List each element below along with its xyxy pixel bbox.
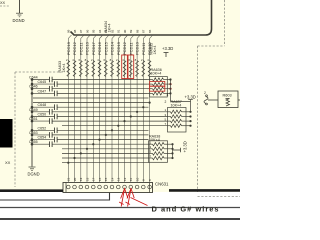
svg-text:D and G# wires: D and G# wires	[152, 205, 220, 214]
svg-text:C644: C644	[29, 76, 38, 80]
svg-text:21: 21	[67, 177, 71, 181]
power +3.3D (RA638, rotated)	[173, 148, 181, 152]
svg-text:PCD11: PCD11	[128, 42, 133, 55]
IC U601 bottom edge with rounded corner	[71, 0, 212, 35]
svg-text:C652: C652	[38, 126, 47, 130]
connector pin numbers	[67, 177, 152, 181]
wire rail 2	[57, 83, 147, 85]
resistor array pin numbers	[66, 58, 149, 62]
svg-text:C645: C645	[38, 80, 47, 84]
svg-text:DGND: DGND	[28, 172, 40, 177]
wire pin PCD15 from IC	[106, 35, 109, 182]
svg-text:PCD12: PCD12	[122, 41, 127, 55]
wire rail 14	[57, 139, 148, 141]
dashed border (right region)	[198, 0, 241, 197]
wire rail 7	[57, 106, 148, 108]
resistor array RA636 10Kx4	[147, 68, 172, 102]
svg-text:PCD13: PCD13	[116, 41, 121, 55]
capacitor C647	[32, 91, 57, 97]
wire pin PCD13 from IC	[118, 35, 121, 182]
wire to R603	[208, 99, 218, 101]
svg-text:20: 20	[73, 177, 77, 181]
capacitor C654	[32, 137, 57, 143]
resistor 1K (array) on wire PCD17	[92, 61, 95, 77]
svg-text:13: 13	[117, 177, 121, 181]
resistor 1K (array) on wire PCC12	[73, 61, 76, 77]
twisted wire symbol	[204, 95, 208, 105]
wire rail 4	[57, 92, 147, 94]
svg-text:98: 98	[73, 29, 77, 33]
svg-text:PCC12: PCC12	[72, 41, 77, 55]
wire rail 10	[52, 120, 167, 122]
wire pin PCD10 from IC	[137, 35, 140, 182]
capacitor C649	[32, 109, 52, 115]
page edge line 1	[0, 207, 240, 209]
svg-text:PCC13: PCC13	[66, 41, 71, 55]
wire pin PCC13 from IC	[68, 35, 71, 182]
svg-text:+3.3D: +3.3D	[182, 141, 187, 152]
svg-text:16: 16	[98, 177, 102, 181]
svg-text:99: 99	[67, 29, 71, 33]
wire pin PCA10 from IC	[150, 35, 153, 182]
svg-text:17: 17	[92, 177, 96, 181]
svg-text:96: 96	[86, 29, 90, 33]
resistor 1K (array) on wire PCA11	[142, 61, 145, 77]
svg-text:XX: XX	[5, 160, 11, 165]
svg-text:R603: R603	[223, 94, 232, 98]
resistor 1K (array) on wire PCD12	[123, 61, 126, 77]
label XX (top-left, cut off)	[0, 1, 9, 6]
wire rail 19	[62, 162, 149, 164]
svg-text:2: 2	[165, 100, 167, 104]
svg-text:C650: C650	[38, 113, 47, 117]
capacitor C645	[32, 81, 57, 87]
svg-text:10K×4: 10K×4	[151, 72, 162, 76]
svg-text:CN631: CN631	[155, 182, 169, 187]
sheet background	[0, 0, 240, 225]
svg-text:4: 4	[167, 93, 169, 97]
resistor 1K (array) on wire PCC10	[86, 61, 89, 77]
page edge line 2	[0, 218, 240, 220]
svg-text:PCC10: PCC10	[85, 41, 90, 55]
resistor array RA637 10Kx4	[165, 100, 192, 132]
resistor 1K (array) on wire PCD16	[98, 61, 101, 77]
svg-text:C646: C646	[29, 85, 38, 89]
wire pin PCD11 from IC	[131, 35, 134, 182]
resistor 1K (array) on wire PCA10	[148, 61, 151, 77]
capacitor C648	[32, 104, 57, 110]
svg-text:C651: C651	[29, 117, 38, 121]
svg-text:C647: C647	[38, 89, 47, 93]
wire rail 15	[52, 143, 148, 145]
capacitor C646	[32, 86, 52, 92]
IC pin numbers above edge	[67, 29, 152, 33]
capacitor C651	[32, 118, 52, 124]
capacitor C644	[32, 77, 52, 83]
svg-text:C648: C648	[38, 103, 47, 107]
svg-text:XX: XX	[0, 1, 6, 5]
wire rail 13	[52, 134, 148, 136]
svg-text:12: 12	[123, 177, 127, 181]
wire pin PCD17 from IC	[93, 35, 96, 182]
svg-text:1K×4: 1K×4	[62, 64, 66, 73]
resistor array RA638 10Kx4	[149, 135, 174, 163]
svg-text:15: 15	[104, 177, 108, 181]
wire pin PCC10 from IC	[87, 35, 90, 182]
wire pin PCD14 from IC	[112, 35, 115, 182]
svg-text:89: 89	[129, 29, 133, 33]
wire rail 11	[62, 125, 168, 127]
ground DGND (bottom of cap bank)	[29, 167, 36, 171]
power +3.3D (top)	[164, 53, 169, 58]
red highlight box on resistor (wire 10)	[122, 55, 128, 79]
red annotation arrows	[119, 189, 147, 207]
svg-text:19: 19	[79, 177, 83, 181]
svg-text:PCC11: PCC11	[78, 42, 83, 55]
wire rail 9	[57, 116, 167, 118]
wire rail 1	[52, 79, 147, 81]
svg-text:14: 14	[111, 177, 115, 181]
svg-text:91: 91	[117, 29, 121, 33]
capacitor C653	[32, 132, 52, 138]
wire pin PCC11 from IC	[81, 35, 84, 182]
wire rail 6	[33, 102, 149, 104]
resistor 1K (array) on wire PCD15	[104, 61, 107, 77]
svg-text:PCD17: PCD17	[91, 41, 96, 55]
wire rail 8	[52, 111, 167, 113]
resistor 1K (array) on wire PCD11	[129, 61, 132, 77]
svg-text:10: 10	[136, 177, 140, 181]
svg-text:+3.3D: +3.3D	[185, 94, 196, 99]
svg-text:PCD15: PCD15	[103, 41, 108, 55]
resistor 1K (array) on wire PCD13	[117, 61, 120, 77]
svg-text:18: 18	[86, 177, 90, 181]
svg-text:PCD14: PCD14	[110, 41, 115, 55]
svg-text:+3.3D: +3.3D	[162, 46, 173, 51]
svg-text:PCD16: PCD16	[97, 41, 102, 55]
black redaction block	[0, 119, 13, 148]
svg-text:PCA11: PCA11	[141, 42, 146, 55]
ground bus wire (left)	[31, 80, 33, 167]
svg-text:1K×4: 1K×4	[107, 24, 111, 33]
wire pin PCC12 from IC	[75, 35, 78, 182]
wire rail 17	[62, 152, 149, 154]
resistor R603	[218, 91, 240, 108]
svg-text:94: 94	[98, 29, 102, 33]
svg-text:C649: C649	[29, 108, 38, 112]
capacitor C655	[32, 141, 52, 147]
wire pin PCD16 from IC	[100, 35, 103, 182]
power +3.3D (RA636/RA637 common)	[171, 100, 193, 102]
svg-text:PCD10: PCD10	[135, 41, 140, 55]
dashed border (left region)	[15, 72, 64, 187]
wire to DGND (top-left)	[19, 0, 21, 13]
wire rail 12	[57, 129, 148, 131]
capacitor C650	[32, 114, 57, 120]
wire rail 16	[62, 148, 149, 150]
resistor 1K (array) on wire PCC11	[79, 61, 82, 77]
resistor 1K (array) on wire PCD10	[136, 61, 139, 77]
svg-text:C654: C654	[38, 136, 47, 140]
svg-text:88: 88	[136, 29, 140, 33]
svg-text:DGND: DGND	[13, 18, 25, 23]
svg-text:90: 90	[123, 29, 127, 33]
wire rail 3	[52, 88, 147, 90]
svg-text:11: 11	[129, 178, 133, 181]
svg-text:2: 2	[204, 91, 206, 95]
wire rail 18	[62, 157, 149, 159]
wire pin PCA11 from IC	[143, 35, 146, 182]
red highlight box on RA636 row 2	[150, 81, 165, 86]
red highlight box on RA636 row 3	[150, 86, 165, 91]
svg-text:86: 86	[148, 29, 152, 33]
connector CN631	[63, 183, 153, 193]
svg-text:10K×4: 10K×4	[171, 104, 182, 108]
red highlight box on resistor (wire 11)	[128, 55, 134, 79]
svg-text:95: 95	[92, 29, 96, 33]
thick wire (to right edge)	[169, 189, 240, 192]
svg-text:87: 87	[142, 29, 146, 33]
resistor 1K (array) on wire PCD14	[111, 61, 114, 77]
capacitor C652	[32, 128, 57, 134]
svg-text:97: 97	[79, 29, 83, 33]
junction dots (wire-to-rail)	[67, 102, 150, 164]
resistor 1K (array) on wire PCC13	[67, 61, 70, 77]
svg-text:C653: C653	[29, 131, 38, 135]
wire bracket below connector	[0, 193, 110, 201]
ground DGND (top-left)	[16, 13, 23, 17]
svg-text:C655: C655	[29, 140, 38, 144]
wire rail 5	[33, 97, 149, 99]
thick wire (to left edge)	[0, 189, 63, 192]
wire pin PCD12 from IC	[125, 35, 128, 182]
svg-text:1K×4: 1K×4	[153, 46, 157, 55]
